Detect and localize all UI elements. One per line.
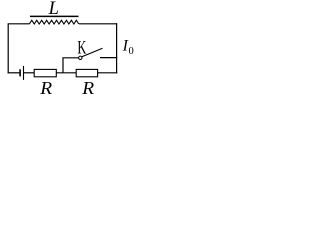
- wire: right vertical rail: [116, 23, 118, 73]
- wire: bottom-left segment to battery: [8, 72, 20, 74]
- svg-text:K: K: [77, 38, 86, 58]
- battery: long thin plate (positive): [23, 66, 25, 80]
- svg-text:R: R: [39, 79, 52, 97]
- wire: top-right horizontal from inductor to right rail: [79, 23, 117, 25]
- battery: short thick plate (negative): [19, 69, 21, 76]
- switch K blade: [82, 48, 103, 56]
- wire: between R1 and R2 with junction: [56, 72, 76, 74]
- svg-text:0: 0: [129, 46, 134, 57]
- resistor R1 box: [34, 69, 56, 76]
- wire: top-left horizontal from left rail to inductor: [8, 24, 29, 73]
- svg-text:L: L: [48, 0, 59, 19]
- wire: battery to resistor R1: [24, 72, 35, 74]
- switch K pivot circle: [79, 56, 82, 59]
- wire: R2 to bottom-right corner: [98, 72, 118, 74]
- inductor core bar: [30, 15, 79, 17]
- resistor R2 box: [76, 69, 97, 76]
- svg-text:R: R: [81, 79, 94, 97]
- inductor L coil: [29, 20, 79, 24]
- wire: junction stub up to switch branch: [63, 58, 79, 73]
- wire: switch fixed contact to right rail: [100, 57, 117, 59]
